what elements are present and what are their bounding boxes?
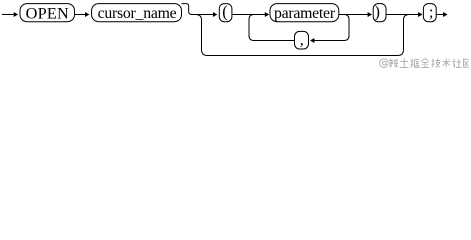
wire cursor_name top-corner step-down to main line <box>182 4 192 15</box>
wire start <box>2 14 14 16</box>
arrow into parameter <box>265 12 269 17</box>
svg-text:,: , <box>300 30 304 49</box>
glyph 掘 <box>411 59 420 68</box>
wire end <box>436 14 443 16</box>
wire comma loop left riser <box>249 15 254 41</box>
terminal ( <box>219 2 232 22</box>
wire ) to ; <box>386 14 419 16</box>
wire ( to parameter <box>232 14 265 16</box>
svg-text:OPEN: OPEN <box>26 3 69 22</box>
wire bypass around parens <box>196 15 409 56</box>
terminal ; <box>423 2 436 22</box>
nonterminal cursor_name <box>92 4 182 23</box>
glyph @ <box>380 59 389 68</box>
glyph 术 <box>443 59 451 68</box>
wire cursor_name to ( <box>191 14 213 16</box>
arrow into cursor_name <box>85 12 89 17</box>
terminal OPEN <box>20 3 75 22</box>
wire comma row left <box>253 40 295 42</box>
svg-text:parameter: parameter <box>274 5 336 22</box>
glyph 社 <box>453 59 462 68</box>
svg-text:(: ( <box>222 2 228 21</box>
wire comma loop right riser <box>344 15 349 41</box>
arrow into ) <box>368 12 372 17</box>
wire comma row right <box>314 40 345 42</box>
glyph 区 <box>464 59 469 67</box>
glyph 稀 <box>389 59 398 68</box>
svg-text:;: ; <box>429 2 434 21</box>
arrow into ; <box>418 12 422 17</box>
nonterminal parameter <box>270 4 339 23</box>
svg-text:): ) <box>374 2 380 21</box>
terminal , <box>295 30 309 50</box>
arrow into OPEN <box>14 12 18 17</box>
watermark @稀土掘金技术社区 (drawn as vector strokes) <box>380 59 469 68</box>
wire parameter to ) <box>339 14 368 16</box>
arrow end <box>443 12 447 17</box>
glyph 技 <box>432 59 441 68</box>
glyph 金 <box>421 59 429 68</box>
wire OPEN to cursor_name <box>75 14 86 16</box>
glyph 土 <box>400 59 409 68</box>
arrow into ( <box>213 12 217 17</box>
terminal ) <box>373 2 386 22</box>
arrow into , (pointing left) <box>310 38 314 43</box>
svg-text:cursor_name: cursor_name <box>98 5 177 22</box>
